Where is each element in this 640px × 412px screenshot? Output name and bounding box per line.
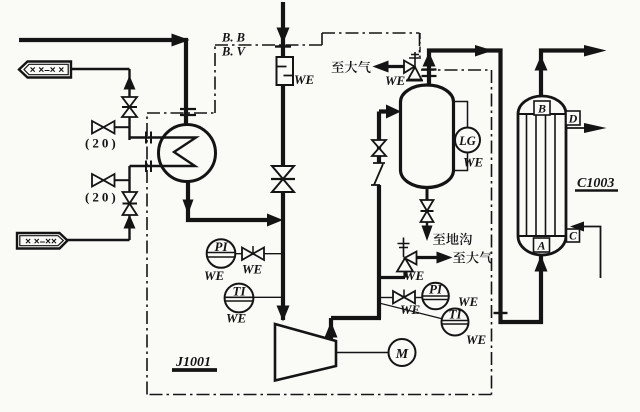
arrow into vessel side	[386, 105, 401, 119]
wire: compressor discharge	[331, 318, 381, 340]
arrow up below valve V4	[124, 215, 136, 229]
flange on downcomer	[494, 312, 508, 314]
instrument TI left	[225, 284, 254, 313]
valve on main line	[272, 166, 294, 192]
arrow into main line	[267, 214, 283, 227]
wire: riser discharge to vessel	[379, 112, 392, 319]
valve V9 instrument root right	[379, 297, 393, 299]
compressor J1001 body	[275, 324, 336, 381]
flange: exchanger top nozzle (boundary crossing)	[180, 109, 196, 115]
svg-text:TI: TI	[233, 284, 247, 299]
arrow up on vent riser	[124, 76, 136, 90]
wire: pipe A into exchanger	[130, 136, 161, 138]
instrument PI right	[415, 297, 422, 299]
wire: vent to atmosphere (top)	[387, 65, 404, 68]
wire: flag1 to vent riser	[72, 69, 130, 140]
arrow down into compressor	[277, 306, 290, 322]
wire: PI tap to main line	[235, 253, 283, 255]
wire: motor link	[336, 352, 389, 354]
svg-text:B: B	[537, 102, 546, 116]
orifice/restriction WE on main line	[277, 57, 294, 85]
wire: exchanger bottom to main suction line	[188, 180, 274, 220]
signal drop to valve	[419, 33, 421, 57]
vessel body	[401, 85, 454, 187]
motor M	[389, 339, 416, 366]
wire: branch to lower vent valve	[379, 271, 405, 278]
valve V4 vertical	[123, 192, 138, 215]
top vent angle valve	[404, 61, 422, 80]
arrow right on overhead	[475, 45, 493, 57]
valve V7 on riser	[372, 140, 386, 156]
arrow up on discharge	[325, 322, 338, 338]
valve V8 instrument root	[242, 248, 264, 261]
svg-text:M: M	[395, 347, 409, 362]
off-page flag 1	[19, 62, 71, 78]
nozzle D label + line	[566, 127, 594, 129]
svg-text:WE: WE	[385, 73, 406, 88]
svg-text:LG: LG	[458, 134, 476, 148]
heat exchanger circle	[159, 125, 216, 182]
svg-text:(20): (20)	[85, 190, 119, 205]
svg-text:WE: WE	[404, 268, 425, 283]
valve V3 horizontal (20)	[92, 174, 115, 187]
nozzle B label	[534, 101, 550, 115]
wire: valve V3 to riser	[115, 179, 130, 181]
svg-text:B. V: B. V	[221, 45, 247, 59]
arrow on feed line	[172, 34, 190, 47]
wire: vent to atmosphere (bottom)	[417, 256, 438, 259]
wire: pipe B from exchanger	[68, 166, 161, 240]
svg-text:J1001: J1001	[175, 355, 211, 370]
svg-text:WE: WE	[242, 262, 263, 277]
instrument TI right	[442, 309, 469, 336]
column C1003 body	[518, 96, 566, 255]
svg-text:WE: WE	[204, 268, 225, 283]
nozzle A label	[534, 238, 550, 252]
svg-text:TI: TI	[449, 307, 463, 322]
wire: main vertical suction line	[281, 2, 285, 320]
svg-text:WE: WE	[294, 72, 315, 87]
svg-text:C1003: C1003	[577, 176, 614, 191]
svg-text:× ×–× ×: × ×–× ×	[30, 65, 65, 76]
level gauge loop	[453, 102, 468, 171]
lower vent angle valve	[397, 252, 417, 272]
wire: vessel bottom drain	[426, 187, 429, 201]
arrow up on vessel nozzle	[423, 52, 436, 67]
instrument PI left	[207, 239, 236, 268]
svg-text:WE: WE	[463, 155, 484, 170]
wire: valve V2 to riser	[115, 126, 130, 128]
svg-text:WE: WE	[226, 311, 247, 326]
svg-text:(20): (20)	[85, 136, 119, 151]
svg-text:PI: PI	[429, 282, 443, 297]
label: 至大气 upper	[332, 61, 371, 73]
flange: pipe B boundary crossing	[146, 161, 151, 173]
wire: feed line top-left into exchanger	[19, 40, 186, 124]
instrument LG	[455, 128, 480, 153]
off-page flag 2	[17, 233, 68, 249]
svg-text:C: C	[569, 231, 577, 243]
svg-text:PI: PI	[215, 239, 229, 254]
valve V2 horizontal (20)	[92, 121, 115, 134]
exchanger coil zigzag	[160, 138, 196, 167]
wire: vessel overhead to column bottom	[429, 51, 541, 323]
break symbol on riser	[371, 163, 385, 185]
svg-text:WE: WE	[466, 332, 487, 347]
flange: main line boundary crossing	[275, 45, 291, 47]
svg-text:D: D	[568, 112, 578, 126]
svg-text:× ×–××: × ×–××	[25, 237, 57, 248]
wire: TI tap to main line	[253, 296, 283, 298]
valve V6 drain	[421, 200, 434, 222]
wire: TI slanted tap	[379, 303, 441, 319]
flange: pipe A boundary crossing	[146, 132, 151, 144]
valve V1 vertical	[122, 97, 137, 117]
arrow down to trench	[422, 226, 433, 242]
nozzle C label + feed line	[584, 227, 601, 279]
J1001 battery-limit boundary (dash-dot)	[147, 33, 492, 395]
flange: vessel top nozzle	[422, 70, 437, 77]
svg-text:B. B: B. B	[221, 31, 245, 45]
label: 至大气 lower	[453, 251, 492, 263]
svg-text:A: A	[536, 239, 545, 253]
wire: column overhead	[541, 51, 592, 97]
arrow down on exchanger outlet	[183, 200, 194, 215]
label: 至地沟	[433, 233, 472, 245]
arrow down on main line top	[277, 28, 290, 44]
arrow up into column bottom	[535, 255, 548, 272]
